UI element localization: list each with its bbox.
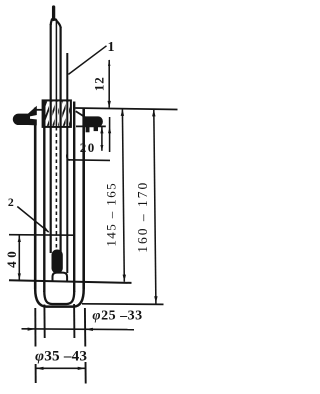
rim extension line (top) — [75, 108, 177, 110]
inner tube right wall — [73, 102, 75, 293]
stirrer loop — [53, 273, 68, 281]
dimension phi35-43 left arrow — [36, 367, 44, 370]
right side arm black tube — [83, 116, 103, 126]
thermometer capillary solid top — [55, 19, 57, 127]
svg-text:12: 12 — [92, 76, 107, 91]
extension below outer right wall lower — [85, 362, 87, 384]
extension below outer left wall lower — [35, 364, 37, 383]
stopper body — [43, 100, 71, 127]
svg-text:20: 20 — [80, 140, 96, 155]
outer tube left shoulder — [36, 109, 44, 111]
dimension phi25-33 line — [22, 328, 135, 331]
extension below inner right wall — [73, 304, 75, 338]
thermometer white margins through stopper — [51, 102, 68, 126]
dimension phi25-33 right arrow — [85, 328, 93, 331]
dimension 20 line — [101, 127, 103, 151]
dimension phi25-33 left arrow — [28, 328, 36, 331]
dimension 145-165 line — [122, 109, 124, 282]
label 2 leader arrowhead — [44, 227, 50, 232]
thermometer flare left — [51, 19, 53, 26]
thermometer right wall — [59, 27, 61, 253]
dimension 12 lower extension arrow — [108, 127, 111, 134]
dimension 145-165 top arrow — [121, 109, 124, 116]
thermometer left wall — [50, 24, 52, 253]
inner tube left wall — [43, 101, 45, 293]
inner tube bottom arc — [44, 291, 74, 304]
dimension 20 up arrow — [100, 127, 103, 133]
left side arm bore (white) — [30, 114, 40, 119]
dimension 20 extension line — [76, 125, 106, 127]
thermometer tip — [52, 7, 55, 20]
svg-text:2: 2 — [8, 195, 14, 209]
svg-text:φ25 –33: φ25 –33 — [92, 309, 142, 324]
dimension 12 top taper — [108, 59, 110, 66]
extension below outer left wall upper — [34, 308, 36, 347]
outer tube right wall — [82, 109, 85, 289]
dimension 40 line — [18, 235, 20, 280]
dimension 12 line — [108, 60, 110, 108]
dimension 145-165 bottom arrow — [123, 275, 126, 282]
thermometer bulb — [52, 250, 63, 274]
outer tube bottom extension line — [82, 303, 164, 306]
dimension 12 bottom arrow — [108, 101, 111, 108]
dimension phi35-43 line — [36, 367, 86, 369]
stirrer handle level line — [67, 159, 111, 162]
svg-text:145 – 165: 145 – 165 — [104, 182, 119, 247]
dimension 20 down arrow — [100, 145, 103, 151]
dimension phi35-43 right arrow — [78, 367, 86, 370]
right side arm top edge — [76, 111, 85, 117]
stirrer through stopper — [66, 100, 68, 127]
svg-text:φ35 –43: φ35 –43 — [35, 348, 87, 365]
thermometer capillary dashed — [55, 127, 57, 250]
outer tube left wall — [34, 108, 37, 289]
liquid level / dim 40 top extension — [9, 234, 74, 237]
svg-text:40: 40 — [4, 248, 19, 268]
dimension 40 up arrow — [18, 235, 21, 242]
thermometer flare right — [55, 19, 61, 29]
label 1 leader — [68, 46, 106, 75]
dimension 40 down arrow — [18, 273, 21, 280]
capillary through stopper — [55, 100, 57, 127]
stirrer handle hook — [67, 155, 70, 161]
outer tube bottom arc — [35, 289, 83, 307]
dimension 12 lower extension — [109, 117, 111, 152]
svg-text:160 – 170: 160 – 170 — [135, 181, 150, 253]
stirrer wire — [66, 53, 68, 273]
left side arm black tube — [13, 106, 37, 126]
dimension 160-170 top arrow — [152, 109, 155, 116]
extension below inner left wall — [43, 305, 45, 339]
thermometer walls through stopper — [51, 100, 61, 127]
right side arm lower stub A — [86, 127, 90, 133]
dimension 160-170 bottom arrow — [154, 296, 157, 303]
label 2 leader — [17, 207, 48, 233]
right side arm lower stub B — [94, 127, 98, 132]
svg-text:1: 1 — [108, 40, 115, 55]
dimension 160-170 line — [154, 109, 156, 304]
dim 40 / tube bottom extension — [9, 280, 132, 283]
extension below outer right wall upper — [84, 308, 86, 347]
